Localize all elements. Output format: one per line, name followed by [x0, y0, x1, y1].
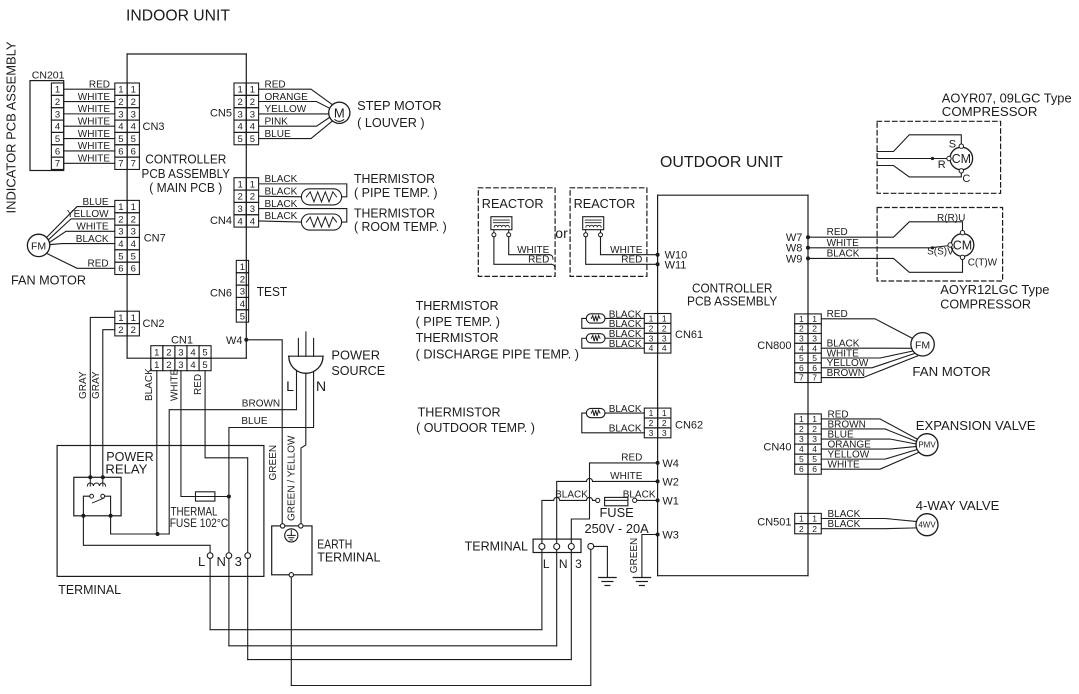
svg-text:GREEN: GREEN: [629, 538, 640, 574]
svg-text:4: 4: [190, 347, 195, 358]
svg-text:1: 1: [662, 408, 667, 418]
svg-text:2: 2: [649, 323, 654, 333]
svg-text:1: 1: [812, 514, 817, 524]
svg-text:1: 1: [240, 262, 245, 273]
svg-text:REACTOR: REACTOR: [574, 196, 636, 211]
svg-text:1: 1: [662, 314, 667, 324]
svg-text:5: 5: [118, 251, 123, 262]
svg-text:3: 3: [250, 204, 255, 215]
svg-text:or: or: [555, 225, 568, 241]
svg-text:TERMINAL: TERMINAL: [58, 582, 121, 597]
svg-text:THERMISTOR: THERMISTOR: [416, 299, 499, 313]
svg-text:3: 3: [235, 554, 242, 569]
svg-text:4: 4: [55, 122, 60, 133]
svg-text:OUTDOOR UNIT: OUTDOOR UNIT: [660, 154, 784, 171]
svg-text:2: 2: [812, 324, 817, 334]
svg-text:CN61: CN61: [675, 329, 703, 341]
svg-text:R(R)U: R(R)U: [937, 213, 965, 224]
svg-text:CN3: CN3: [143, 121, 165, 133]
svg-text:4: 4: [799, 343, 804, 353]
svg-text:3: 3: [575, 557, 582, 571]
svg-text:L: L: [543, 557, 550, 571]
svg-text:4: 4: [238, 122, 243, 133]
svg-text:RED: RED: [827, 227, 848, 238]
svg-text:CM: CM: [953, 239, 972, 253]
svg-text:WHITE: WHITE: [78, 154, 111, 165]
svg-text:3: 3: [250, 109, 255, 120]
svg-text:2: 2: [118, 325, 123, 336]
svg-text:WHITE: WHITE: [78, 129, 111, 140]
svg-text:CN201: CN201: [32, 70, 65, 82]
svg-text:C(T)W: C(T)W: [968, 257, 998, 268]
svg-text:4: 4: [799, 444, 804, 454]
svg-text:2: 2: [662, 418, 667, 428]
svg-text:BLACK: BLACK: [827, 248, 860, 259]
svg-text:2: 2: [240, 274, 245, 285]
svg-text:6: 6: [131, 146, 136, 157]
svg-text:7: 7: [131, 159, 136, 170]
svg-text:5: 5: [202, 360, 207, 371]
svg-text:6: 6: [131, 264, 136, 275]
svg-text:R: R: [938, 159, 946, 171]
svg-text:S(S)V: S(S)V: [927, 247, 954, 258]
svg-text:( ROOM TEMP. ): ( ROOM TEMP. ): [354, 219, 447, 234]
svg-text:( LOUVER ): ( LOUVER ): [357, 115, 425, 130]
svg-text:2: 2: [118, 97, 123, 108]
svg-text:7: 7: [799, 373, 804, 383]
svg-text:3: 3: [662, 428, 667, 438]
svg-text:THERMISTOR: THERMISTOR: [418, 405, 501, 419]
svg-text:3: 3: [812, 333, 817, 343]
svg-text:1: 1: [131, 202, 136, 213]
svg-text:1: 1: [154, 360, 159, 371]
svg-text:GREEN: GREEN: [268, 445, 279, 481]
svg-text:WHITE: WHITE: [78, 141, 111, 152]
svg-text:4: 4: [190, 360, 195, 371]
svg-text:CN6: CN6: [210, 288, 232, 300]
svg-text:6: 6: [812, 464, 817, 474]
svg-text:4WV: 4WV: [918, 521, 936, 530]
svg-text:4-WAY VALVE: 4-WAY VALVE: [916, 498, 1000, 513]
svg-text:2: 2: [799, 424, 804, 434]
svg-text:W2: W2: [662, 476, 679, 488]
svg-text:5: 5: [118, 134, 123, 145]
svg-text:1: 1: [250, 179, 255, 190]
svg-text:5: 5: [812, 454, 817, 464]
svg-text:SOURCE: SOURCE: [331, 363, 385, 378]
svg-text:2: 2: [131, 214, 136, 225]
svg-text:6: 6: [799, 464, 804, 474]
svg-text:3: 3: [662, 333, 667, 343]
svg-text:5: 5: [131, 134, 136, 145]
svg-text:RED: RED: [528, 254, 549, 265]
svg-text:3: 3: [131, 109, 136, 120]
svg-text:FAN MOTOR: FAN MOTOR: [912, 364, 990, 379]
svg-text:1: 1: [649, 314, 654, 324]
svg-text:RED: RED: [621, 452, 642, 463]
svg-text:AOYR12LGC Type: AOYR12LGC Type: [940, 282, 1049, 297]
svg-text:3: 3: [799, 333, 804, 343]
svg-text:1: 1: [238, 179, 243, 190]
svg-text:M: M: [334, 106, 345, 121]
svg-text:3: 3: [649, 333, 654, 343]
svg-text:RED: RED: [621, 254, 642, 265]
svg-text:5: 5: [812, 353, 817, 363]
svg-text:6: 6: [812, 363, 817, 373]
svg-text:3: 3: [799, 434, 804, 444]
svg-text:3: 3: [649, 428, 654, 438]
svg-text:1: 1: [55, 85, 60, 96]
svg-text:1: 1: [799, 314, 804, 324]
svg-text:CN40: CN40: [763, 441, 791, 453]
svg-text:2: 2: [812, 524, 817, 534]
svg-text:5: 5: [250, 134, 255, 145]
svg-text:3: 3: [240, 287, 245, 298]
svg-text:L: L: [286, 378, 294, 394]
svg-text:6: 6: [118, 146, 123, 157]
svg-text:1: 1: [649, 408, 654, 418]
svg-text:1: 1: [131, 313, 136, 324]
svg-text:4: 4: [250, 122, 255, 133]
svg-text:1: 1: [131, 85, 136, 96]
svg-text:1: 1: [250, 85, 255, 96]
svg-text:2: 2: [238, 97, 243, 108]
svg-text:5: 5: [799, 353, 804, 363]
svg-text:CN62: CN62: [675, 419, 703, 431]
svg-text:2: 2: [118, 214, 123, 225]
svg-text:FM: FM: [915, 339, 930, 351]
svg-text:COMPRESSOR: COMPRESSOR: [942, 104, 1038, 119]
svg-text:W3: W3: [662, 529, 679, 541]
svg-text:5: 5: [202, 347, 207, 358]
svg-text:( MAIN PCB ): ( MAIN PCB ): [149, 180, 222, 195]
svg-text:RELAY: RELAY: [105, 462, 147, 477]
svg-text:2: 2: [799, 324, 804, 334]
svg-text:WHITE: WHITE: [78, 92, 111, 103]
svg-text:CN2: CN2: [143, 318, 165, 330]
svg-text:5: 5: [238, 134, 243, 145]
svg-text:2: 2: [250, 97, 255, 108]
svg-text:4: 4: [131, 239, 136, 250]
svg-text:4: 4: [649, 343, 654, 353]
svg-text:1: 1: [812, 414, 817, 424]
svg-text:GRAY: GRAY: [91, 371, 102, 399]
svg-text:STEP MOTOR: STEP MOTOR: [357, 98, 441, 113]
svg-text:( PIPE TEMP. ): ( PIPE TEMP. ): [416, 315, 500, 329]
svg-text:4: 4: [662, 343, 667, 353]
svg-text:6: 6: [118, 264, 123, 275]
svg-text:4: 4: [812, 343, 817, 353]
svg-text:2: 2: [131, 97, 136, 108]
svg-text:3: 3: [178, 347, 183, 358]
svg-text:WHITE: WHITE: [610, 471, 643, 482]
svg-text:1: 1: [118, 85, 123, 96]
svg-text:POWER: POWER: [331, 347, 380, 362]
svg-text:TEST: TEST: [257, 285, 288, 299]
svg-text:4: 4: [131, 122, 136, 133]
svg-text:FAN MOTOR: FAN MOTOR: [11, 273, 86, 288]
svg-text:6: 6: [799, 363, 804, 373]
svg-text:RED: RED: [89, 79, 110, 90]
svg-text:S: S: [949, 139, 956, 151]
svg-text:WHITE: WHITE: [169, 368, 180, 401]
svg-text:3: 3: [238, 204, 243, 215]
svg-text:5: 5: [799, 454, 804, 464]
svg-text:THERMISTOR: THERMISTOR: [416, 331, 499, 345]
svg-text:WHITE: WHITE: [827, 238, 860, 249]
svg-text:REACTOR: REACTOR: [482, 196, 544, 211]
svg-text:PCB ASSEMBLY: PCB ASSEMBLY: [687, 293, 778, 308]
svg-text:W9: W9: [786, 253, 803, 265]
svg-text:CN5: CN5: [210, 107, 232, 119]
svg-text:4: 4: [250, 216, 255, 227]
svg-text:4: 4: [118, 122, 123, 133]
svg-text:1: 1: [118, 313, 123, 324]
svg-text:7: 7: [118, 159, 123, 170]
svg-text:2: 2: [799, 524, 804, 534]
svg-text:COMPRESSOR: COMPRESSOR: [940, 296, 1031, 311]
svg-text:WHITE: WHITE: [78, 104, 111, 115]
svg-text:FM: FM: [31, 240, 46, 252]
svg-text:5: 5: [131, 251, 136, 262]
svg-text:CN7: CN7: [144, 233, 166, 245]
svg-text:3: 3: [812, 434, 817, 444]
svg-text:N: N: [316, 378, 326, 394]
svg-text:7: 7: [55, 159, 60, 170]
svg-text:5: 5: [240, 311, 245, 322]
svg-text:( OUTDOOR TEMP. ): ( OUTDOOR TEMP. ): [416, 421, 535, 435]
svg-text:CN1: CN1: [171, 335, 193, 347]
svg-text:CN800: CN800: [757, 340, 791, 352]
svg-text:2: 2: [131, 325, 136, 336]
svg-text:THERMISTOR: THERMISTOR: [354, 171, 435, 186]
svg-text:FUSE 102°C: FUSE 102°C: [170, 516, 229, 530]
svg-text:W4: W4: [662, 458, 679, 470]
svg-text:W11: W11: [665, 259, 687, 271]
svg-text:2: 2: [662, 323, 667, 333]
svg-text:2: 2: [166, 347, 171, 358]
svg-text:2: 2: [238, 192, 243, 203]
svg-text:W4: W4: [226, 335, 243, 347]
svg-text:250V - 20A: 250V - 20A: [584, 521, 649, 536]
svg-text:FUSE: FUSE: [599, 505, 634, 520]
svg-text:4: 4: [812, 444, 817, 454]
svg-text:TERMINAL: TERMINAL: [317, 549, 380, 564]
svg-text:BROWN: BROWN: [242, 398, 280, 409]
svg-text:7: 7: [812, 373, 817, 383]
svg-text:1: 1: [799, 514, 804, 524]
svg-text:GREEN / YELLOW: GREEN / YELLOW: [287, 435, 298, 521]
svg-text:5: 5: [55, 134, 60, 145]
svg-text:2: 2: [55, 97, 60, 108]
svg-text:W1: W1: [662, 495, 679, 507]
svg-text:3: 3: [238, 109, 243, 120]
svg-text:CONTROLLER: CONTROLLER: [145, 152, 226, 167]
svg-text:BLACK: BLACK: [144, 368, 155, 401]
svg-text:2: 2: [649, 418, 654, 428]
svg-text:CM: CM: [952, 152, 971, 166]
svg-text:4: 4: [238, 216, 243, 227]
svg-text:1: 1: [799, 414, 804, 424]
svg-text:1: 1: [812, 314, 817, 324]
svg-text:INDOOR UNIT: INDOOR UNIT: [126, 7, 231, 24]
svg-text:N: N: [559, 557, 568, 571]
svg-text:2: 2: [812, 424, 817, 434]
svg-text:4: 4: [118, 239, 123, 250]
svg-text:1: 1: [154, 347, 159, 358]
svg-text:WHITE: WHITE: [78, 117, 111, 128]
svg-text:N: N: [217, 554, 226, 569]
svg-text:INDICATOR PCB ASSEMBLY: INDICATOR PCB ASSEMBLY: [4, 41, 19, 213]
svg-text:3: 3: [131, 227, 136, 238]
svg-text:C: C: [962, 173, 970, 185]
svg-text:6: 6: [55, 146, 60, 157]
svg-text:PMV: PMV: [918, 441, 936, 450]
svg-text:L: L: [198, 554, 205, 569]
svg-text:CN501: CN501: [757, 516, 791, 528]
svg-text:2: 2: [250, 192, 255, 203]
svg-text:BLACK: BLACK: [265, 211, 298, 222]
svg-text:3: 3: [118, 227, 123, 238]
svg-text:3: 3: [55, 109, 60, 120]
svg-text:CN4: CN4: [210, 215, 232, 227]
svg-text:EXPANSION VALVE: EXPANSION VALVE: [916, 418, 1036, 433]
svg-text:( DISCHARGE PIPE TEMP. ): ( DISCHARGE PIPE TEMP. ): [416, 348, 579, 362]
svg-text:1: 1: [118, 202, 123, 213]
svg-text:3: 3: [118, 109, 123, 120]
svg-text:GRAY: GRAY: [78, 371, 89, 399]
svg-text:PCB ASSEMBLY: PCB ASSEMBLY: [142, 166, 231, 181]
svg-text:BLACK: BLACK: [555, 489, 588, 500]
svg-text:TERMINAL: TERMINAL: [465, 539, 528, 554]
svg-text:4: 4: [240, 299, 245, 310]
svg-text:RED: RED: [193, 374, 204, 395]
svg-text:BLUE: BLUE: [241, 416, 267, 427]
svg-text:( PIPE TEMP. ): ( PIPE TEMP. ): [354, 185, 438, 200]
svg-text:1: 1: [238, 85, 243, 96]
